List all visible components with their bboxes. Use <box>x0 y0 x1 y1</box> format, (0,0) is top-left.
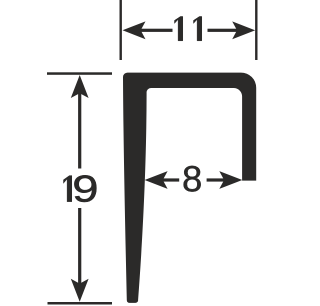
dimension 19: lower tail line <box>78 208 81 284</box>
dimension 11: right extension line <box>255 0 257 60</box>
dimension 11: left arrow <box>123 21 146 39</box>
dimension 19: top tick line <box>47 72 112 75</box>
dimension 11: left tail line <box>140 29 173 32</box>
dimension 19: label digit 1 <box>64 176 72 202</box>
dimension 8: left arrow <box>145 171 168 189</box>
dimension 11: right tail line <box>208 29 238 32</box>
dimension 11: right arrow <box>232 21 255 39</box>
dimension 19: up arrow <box>71 75 89 98</box>
dimension 11: left extension line <box>120 0 122 60</box>
dimension 19: down arrow <box>71 279 89 302</box>
dimension 8: label digit 8 <box>184 166 201 192</box>
dimension 11: label digit 1 (second) <box>194 16 202 40</box>
dimension 19: bottom tick line <box>48 302 113 305</box>
dimension 8: left tail line <box>162 178 179 181</box>
dimension 8: right arrow <box>219 171 242 189</box>
dimension 8: right tail line <box>207 178 226 181</box>
dimension 19: upper tail line <box>78 93 81 169</box>
dimension 19: label digit 9 <box>74 175 96 202</box>
dimension 11: label digit 1 (first) <box>175 16 183 40</box>
profile cross-section (L-shaped trim profile) <box>123 73 256 303</box>
